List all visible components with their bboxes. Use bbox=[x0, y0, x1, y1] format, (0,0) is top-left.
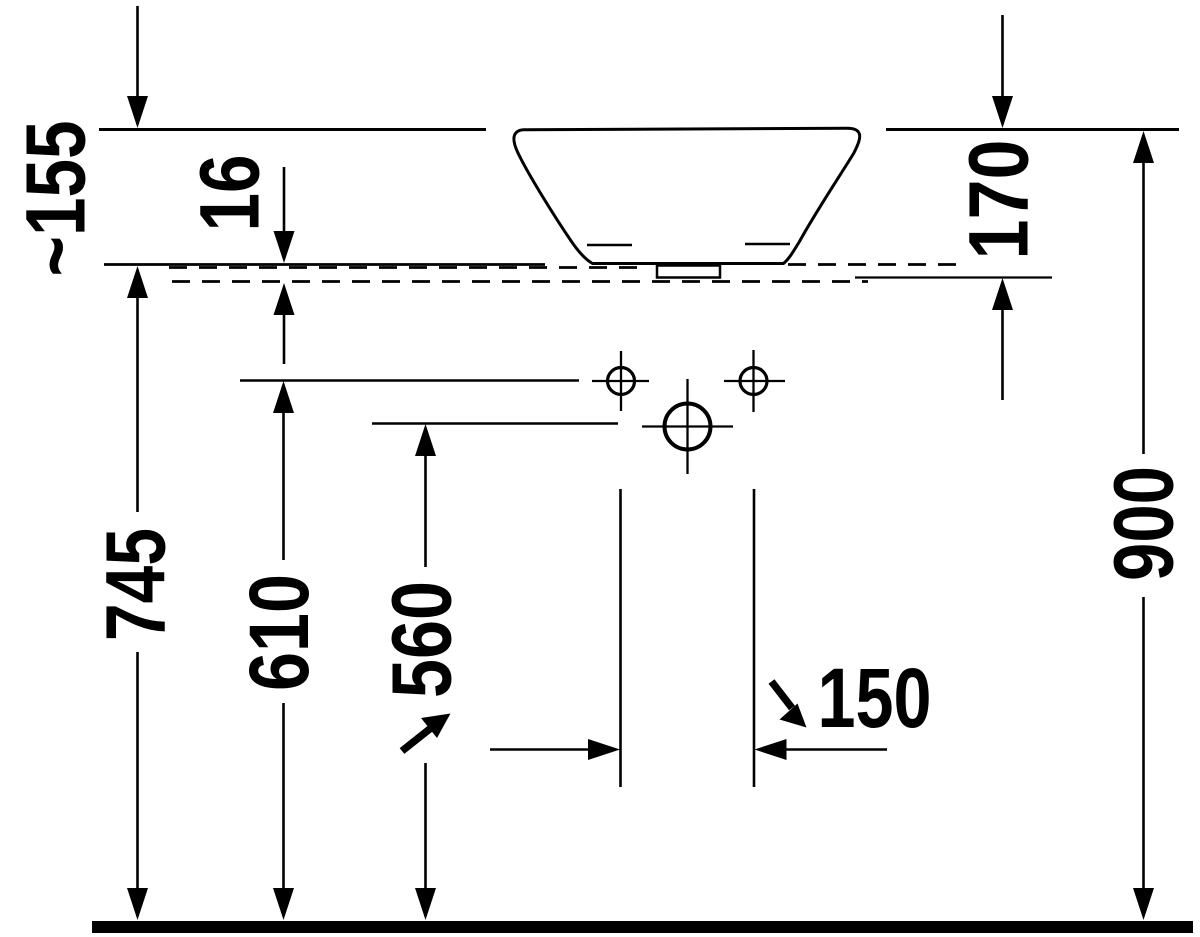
dimension 610 extension line bbox=[240, 379, 579, 381]
hidden edge lower dashed line bbox=[172, 280, 868, 283]
dimension 150 right arrow bbox=[755, 739, 888, 760]
dimension 16 upper arrow bbox=[274, 167, 295, 263]
svg-text:745: 745 bbox=[89, 528, 183, 641]
svg-text:170: 170 bbox=[952, 140, 1046, 260]
svg-text:900: 900 bbox=[1097, 466, 1191, 581]
wire top rim level line left segment bbox=[99, 128, 486, 131]
svg-text:~155: ~155 bbox=[9, 121, 103, 277]
floor line bbox=[92, 921, 1193, 933]
faucet hole right crosshair vertical bbox=[752, 350, 754, 412]
dimension 560 extension line bbox=[372, 422, 618, 424]
washbasin inner bottom edge left bbox=[587, 244, 632, 247]
countertop surface solid line bbox=[104, 263, 545, 266]
extension line left hole down bbox=[619, 489, 622, 787]
extension line for 170 bottom bbox=[855, 276, 1052, 278]
svg-text:150: 150 bbox=[818, 651, 932, 745]
drain hole crosshair vertical bbox=[686, 379, 688, 474]
wire top rim level line right segment bbox=[886, 128, 1179, 131]
leader arrow for 560 bbox=[402, 714, 451, 752]
dimension 900 line with arrows bbox=[1133, 131, 1154, 920]
extension line right hole down bbox=[753, 489, 756, 787]
dimension ~155 upper arrow bbox=[127, 6, 148, 128]
faucet hole right crosshair horizontal bbox=[724, 380, 785, 382]
washbasin inner bottom edge right bbox=[745, 243, 790, 246]
faucet hole left circle bbox=[608, 368, 635, 395]
dimension 16 lower arrow bbox=[274, 283, 295, 364]
dimension 150 left arrow bbox=[490, 739, 620, 760]
leader arrow for 150 bbox=[772, 682, 807, 728]
drain hole crosshair horizontal bbox=[642, 425, 733, 427]
svg-text:16: 16 bbox=[183, 155, 277, 232]
dimension 610 line with arrows bbox=[273, 381, 294, 920]
svg-text:560: 560 bbox=[375, 581, 469, 698]
dimension 560 line with arrows bbox=[415, 424, 436, 920]
faucet hole left crosshair vertical bbox=[620, 351, 622, 411]
drain fitting rectangle bbox=[657, 266, 720, 278]
faucet hole right circle bbox=[740, 368, 767, 395]
dimension 745 line with arrows bbox=[127, 266, 148, 920]
faucet hole left crosshair horizontal bbox=[592, 380, 649, 382]
dimension 170 upper arrow bbox=[992, 15, 1013, 128]
svg-text:610: 610 bbox=[232, 574, 326, 691]
drain hole big circle bbox=[665, 404, 711, 450]
dimension 170 lower arrow bbox=[992, 278, 1013, 400]
washbasin bowl outline bbox=[514, 128, 860, 263]
hidden edge upper dashed line bbox=[169, 266, 640, 269]
